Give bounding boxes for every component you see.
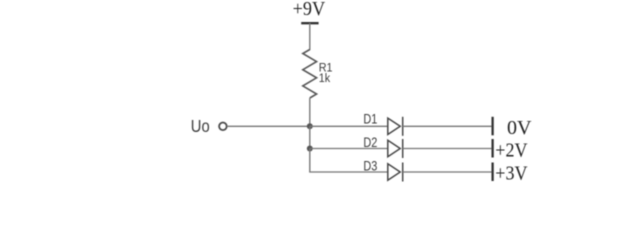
terminal bar +3V bbox=[491, 163, 493, 182]
terminal bar +2V bbox=[491, 139, 493, 158]
svg-text:0V: 0V bbox=[507, 117, 532, 139]
svg-text:Uo: Uo bbox=[191, 116, 210, 136]
wire resistor to node A bbox=[309, 98, 311, 126]
junction node A bbox=[307, 123, 313, 129]
svg-text:D1: D1 bbox=[363, 111, 377, 127]
resistor R1 bbox=[303, 50, 317, 99]
junction node B bbox=[307, 146, 313, 152]
wire node B to D2 anode bbox=[310, 148, 388, 150]
diode D1 bbox=[388, 117, 403, 136]
terminal Uo circle bbox=[219, 123, 227, 131]
wire D1 cathode to 0V terminal bbox=[403, 125, 493, 127]
diode D3 bbox=[388, 163, 403, 182]
wire node A to node B bbox=[309, 126, 311, 148]
terminal bar 0V bbox=[491, 117, 493, 136]
wire D3 cathode to +3V terminal bbox=[403, 171, 493, 173]
svg-text:D2: D2 bbox=[363, 135, 377, 151]
wire node A to D1 anode bbox=[310, 125, 388, 127]
wire supply to resistor bbox=[309, 23, 311, 50]
svg-text:1k: 1k bbox=[319, 72, 331, 85]
svg-text:+9V: +9V bbox=[293, 0, 326, 20]
svg-text:+2V: +2V bbox=[495, 139, 528, 161]
wire Uo to node A bbox=[227, 125, 310, 127]
svg-text:D3: D3 bbox=[363, 158, 377, 174]
wire D2 cathode to +2V terminal bbox=[403, 148, 493, 150]
svg-text:+3V: +3V bbox=[495, 163, 528, 185]
supply terminal bar +9V bbox=[301, 22, 318, 24]
wire node B down to bottom corner and right to D3 anode bbox=[310, 149, 388, 173]
diode D2 bbox=[388, 139, 403, 158]
